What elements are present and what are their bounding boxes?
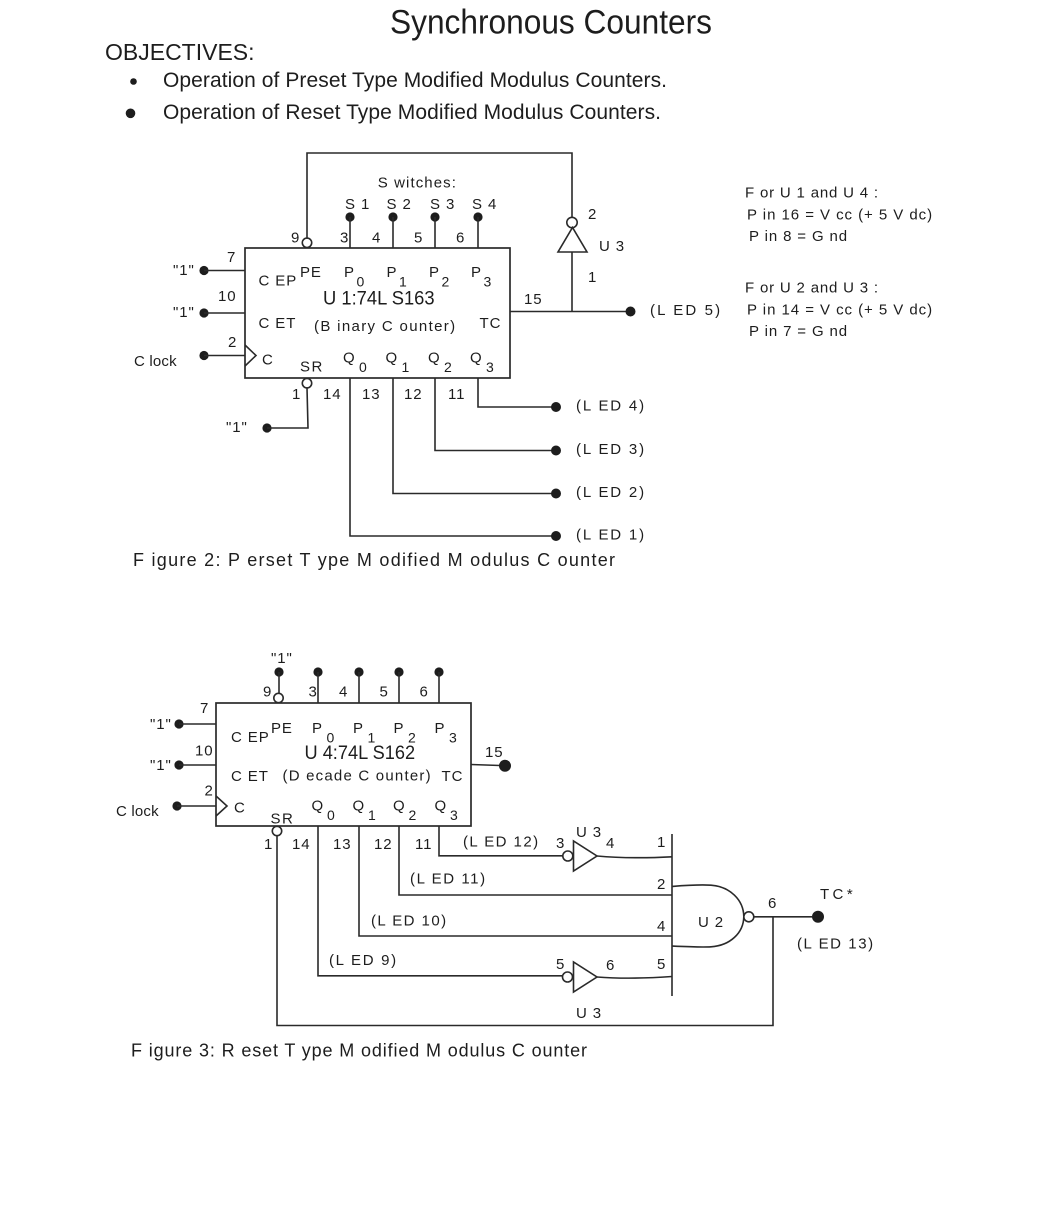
U4 pin name CEP bbox=[231, 729, 270, 746]
preset input node P1 (fig3) bbox=[354, 667, 363, 676]
U1 pin number 5 bbox=[414, 230, 423, 247]
svg-text:P in 8 = G nd: P in 8 = G nd bbox=[749, 228, 848, 245]
U1 pin name Q3 bbox=[470, 350, 495, 376]
wire: U4 Q3 pin 11 to inverter U3a input bbox=[439, 826, 563, 856]
U1 pin name Q0 bbox=[343, 350, 368, 376]
svg-text:OBJECTIVES:: OBJECTIVES: bbox=[105, 39, 255, 65]
svg-text:4: 4 bbox=[339, 684, 348, 701]
svg-text:15: 15 bbox=[524, 291, 543, 308]
node LED 12 bbox=[463, 834, 539, 851]
inverter U3a input bubble bbox=[563, 851, 573, 861]
svg-text:0: 0 bbox=[327, 807, 336, 823]
node LED 2 bbox=[551, 484, 645, 501]
svg-text:Q: Q bbox=[428, 350, 441, 367]
U3 designator on feedback path bbox=[576, 1005, 602, 1022]
svg-text:Q: Q bbox=[343, 350, 356, 367]
wire: clock to U4 pin 2 bbox=[177, 805, 216, 807]
svg-text:C: C bbox=[234, 800, 246, 817]
svg-text:TC: TC bbox=[480, 315, 502, 332]
U4 pin name CET bbox=[231, 768, 269, 785]
svg-text:10: 10 bbox=[195, 743, 214, 760]
svg-text:Synchronous Counters: Synchronous Counters bbox=[390, 4, 712, 42]
svg-text:(L ED 5): (L ED 5) bbox=[650, 302, 721, 319]
wire: S3 to U1 pin 5 bbox=[434, 217, 436, 248]
U4 pin name Q3 bbox=[435, 798, 459, 824]
svg-text:3: 3 bbox=[486, 359, 495, 375]
node "1" at CET input bbox=[173, 304, 209, 321]
svg-text:1: 1 bbox=[264, 836, 273, 853]
wire: U3 output to U1 PE pin 9 bbox=[307, 153, 572, 238]
IC U1 74LS163 body bbox=[245, 248, 510, 378]
svg-text:U 3: U 3 bbox=[576, 1005, 602, 1022]
svg-text:U 2: U 2 bbox=[698, 914, 724, 931]
U4 pin number 12 bbox=[374, 836, 393, 853]
svg-text:P: P bbox=[353, 720, 364, 737]
svg-text:9: 9 bbox=[263, 684, 272, 701]
svg-text:Q: Q bbox=[470, 350, 483, 367]
node Clock input (fig2) bbox=[134, 351, 209, 370]
preset input node P2 (fig3) bbox=[394, 667, 403, 676]
svg-text:(L ED 1): (L ED 1) bbox=[576, 527, 645, 544]
U1 pin number 6 bbox=[456, 230, 465, 247]
svg-text:2: 2 bbox=[205, 783, 214, 800]
svg-text:P: P bbox=[312, 720, 323, 737]
switch S3 bbox=[430, 196, 455, 222]
U4 pin 1 active-low bubble (SR) bbox=[272, 826, 281, 835]
U1 pin number 1 bbox=[292, 386, 301, 403]
U1 pin name CEP bbox=[259, 273, 298, 290]
inverter U3 (fig2) output bubble pin 2 bbox=[567, 217, 577, 227]
U1 pin number 7 bbox=[227, 249, 236, 266]
svg-text:S 4: S 4 bbox=[472, 196, 497, 213]
svg-text:S witches:: S witches: bbox=[378, 175, 457, 192]
node "1" at CEP input (fig3) bbox=[150, 716, 184, 733]
U2 pin number 6 bbox=[768, 895, 777, 912]
svg-text:4: 4 bbox=[657, 918, 666, 935]
svg-text:1: 1 bbox=[292, 386, 301, 403]
svg-text:"1": "1" bbox=[150, 716, 172, 733]
U4 pin name P2 bbox=[394, 720, 417, 746]
svg-text:5: 5 bbox=[380, 684, 389, 701]
caption figure 3 bbox=[131, 1041, 587, 1061]
svg-text:Operation of Reset Type Modifi: Operation of Reset Type Modified Modulus… bbox=[163, 101, 661, 124]
svg-text:F igure 2: P erset T ype M odi: F igure 2: P erset T ype M odified M odu… bbox=[133, 550, 615, 570]
svg-text:TC: TC bbox=[442, 768, 464, 785]
NAND U2 input bus line bbox=[671, 834, 673, 996]
preset input node P3 (fig3) bbox=[434, 667, 443, 676]
svg-text:(D ecade C ounter): (D ecade C ounter) bbox=[283, 768, 432, 785]
node TC output (fig3) bbox=[499, 760, 511, 772]
svg-text:U 1:74L S163: U 1:74L S163 bbox=[323, 288, 435, 310]
U1 pin name TC bbox=[480, 315, 502, 332]
node LED 11 bbox=[410, 871, 486, 888]
svg-text:13: 13 bbox=[362, 386, 381, 403]
svg-text:P in 7 = G nd: P in 7 = G nd bbox=[749, 323, 848, 340]
wire: U1 Q2 pin 12 to LED 3 bbox=[435, 378, 552, 451]
U4 label (Decade Counter) bbox=[283, 768, 432, 785]
node LED 5 bbox=[626, 302, 722, 319]
U2 pin number 5 bbox=[657, 956, 666, 973]
svg-text:(L ED 10): (L ED 10) bbox=[371, 913, 447, 930]
svg-text:2: 2 bbox=[228, 334, 237, 351]
svg-text:F or U 2 and U 3 :: F or U 2 and U 3 : bbox=[745, 280, 879, 297]
node "1" at PE input (fig3) bbox=[271, 650, 293, 677]
svg-text:"1": "1" bbox=[271, 650, 293, 667]
U4 pin name Q0 bbox=[312, 798, 336, 824]
svg-text:Q: Q bbox=[435, 798, 448, 815]
wire: U4 TC pin 15 stub bbox=[471, 765, 500, 766]
note: power pins for U2 and U3 bbox=[745, 280, 933, 341]
U1 pin number 14 bbox=[323, 386, 342, 403]
svg-text:(L ED 4): (L ED 4) bbox=[576, 398, 645, 415]
U4 pin number 7 bbox=[200, 700, 209, 717]
svg-text:3: 3 bbox=[484, 274, 493, 290]
svg-text:U 4:74L S162: U 4:74L S162 bbox=[305, 742, 416, 764]
heading OBJECTIVES bbox=[105, 39, 255, 65]
U4 pin number 4 bbox=[339, 684, 348, 701]
svg-text:3: 3 bbox=[449, 730, 458, 746]
svg-text:3: 3 bbox=[340, 230, 349, 247]
U1 pin name Q2 bbox=[428, 350, 453, 376]
U1 pin name P2 bbox=[429, 264, 450, 290]
svg-text:3: 3 bbox=[309, 684, 318, 701]
caption figure 2 bbox=[133, 550, 615, 570]
svg-text:(L ED 11): (L ED 11) bbox=[410, 871, 486, 888]
svg-text:P: P bbox=[429, 264, 440, 281]
U4 pin name PE bbox=[271, 720, 293, 737]
U1 pin name P0 bbox=[344, 264, 365, 290]
node "1" at CEP input bbox=[173, 262, 209, 279]
svg-text:P in 14 = V cc (+ 5 V dc): P in 14 = V cc (+ 5 V dc) bbox=[747, 302, 933, 319]
U3b pin number 6 bbox=[606, 957, 615, 974]
U4 pin number 3 bbox=[309, 684, 318, 701]
U4 pin number 9 bbox=[263, 684, 272, 701]
node LED 3 bbox=[551, 441, 645, 458]
svg-text:T C *: T C * bbox=[820, 886, 853, 903]
U4 pin name Q2 bbox=[393, 798, 417, 824]
svg-text:Q: Q bbox=[393, 798, 406, 815]
U1 pin number 12 bbox=[404, 386, 423, 403]
svg-text:(L ED 12): (L ED 12) bbox=[463, 834, 539, 851]
U3 pin number 1 bbox=[588, 269, 597, 286]
svg-text:4: 4 bbox=[606, 835, 615, 852]
wire: logic 1 to U1 CEP pin 7 bbox=[204, 270, 245, 272]
node Clock input (fig3) bbox=[116, 801, 182, 820]
svg-text:(L ED 13): (L ED 13) bbox=[797, 936, 874, 953]
svg-text:14: 14 bbox=[323, 386, 342, 403]
U4 pin name SR bbox=[271, 811, 295, 828]
svg-text:F or U 1 and U 4 :: F or U 1 and U 4 : bbox=[745, 185, 879, 202]
wire: clock to U1 pin 2 bbox=[204, 355, 245, 357]
wire: logic 1 to U4 CEP pin 7 bbox=[179, 723, 216, 725]
svg-text:S 3: S 3 bbox=[430, 196, 455, 213]
svg-text:SR: SR bbox=[271, 811, 295, 828]
wire: logic 1 to U4 PE pin 9 bbox=[278, 672, 280, 693]
svg-text:4: 4 bbox=[372, 230, 381, 247]
svg-text:(L ED 3): (L ED 3) bbox=[576, 441, 645, 458]
svg-text:C ET: C ET bbox=[259, 315, 297, 332]
U1 pin number 9 bbox=[291, 230, 300, 247]
U1 pin number 3 bbox=[340, 230, 349, 247]
inverter U3b input bubble bbox=[563, 972, 573, 982]
svg-text:(L ED 9): (L ED 9) bbox=[329, 952, 397, 969]
svg-text:C EP: C EP bbox=[259, 273, 298, 290]
wire: TC node to U3 input pin 1 bbox=[571, 252, 573, 312]
svg-text:Q: Q bbox=[353, 798, 366, 815]
NAND U2 output bubble pin 6 bbox=[744, 912, 754, 922]
svg-text:C: C bbox=[262, 352, 274, 369]
svg-text:14: 14 bbox=[292, 836, 311, 853]
U1 pin name P3 bbox=[471, 264, 492, 290]
svg-text:Q: Q bbox=[386, 350, 399, 367]
wire: U3a output to NAND pin 1 bbox=[597, 856, 672, 858]
U1 pin number 4 bbox=[372, 230, 381, 247]
U1 pin 1 active-low bubble (SR) bbox=[302, 379, 311, 388]
svg-text:(B inary C ounter): (B inary C ounter) bbox=[314, 318, 456, 335]
svg-text:7: 7 bbox=[200, 700, 209, 717]
U4 pin number 14 bbox=[292, 836, 311, 853]
IC U4 74LS162 body bbox=[216, 703, 471, 826]
U1 pin 9 active-low bubble bbox=[302, 238, 311, 247]
document title bbox=[390, 4, 712, 42]
U1 pin name Q1 bbox=[386, 350, 411, 376]
svg-text:P in 16 = V cc (+ 5 V dc): P in 16 = V cc (+ 5 V dc) bbox=[747, 207, 933, 224]
switch S4 bbox=[472, 196, 497, 222]
wire: U1 Q3 pin 11 to LED 4 bbox=[478, 378, 552, 407]
svg-text:Operation of Preset Type Modif: Operation of Preset Type Modified Modulu… bbox=[163, 69, 667, 92]
svg-text:13: 13 bbox=[333, 836, 352, 853]
wire: U4 Q0 pin 14 to inverter U3b input bbox=[318, 826, 562, 976]
svg-text:P: P bbox=[471, 264, 482, 281]
svg-text:6: 6 bbox=[606, 957, 615, 974]
U1 pin name SR bbox=[300, 359, 324, 376]
svg-text:3: 3 bbox=[556, 835, 565, 852]
U1 pin number 2 bbox=[228, 334, 237, 351]
svg-text:PE: PE bbox=[300, 264, 322, 281]
U4 pin number 2 bbox=[205, 783, 214, 800]
U4 pin name C bbox=[234, 800, 246, 817]
inverter U3b triangle bbox=[574, 962, 598, 992]
svg-text:11: 11 bbox=[415, 836, 432, 853]
U4 pin name P1 bbox=[353, 720, 376, 746]
svg-text:Q: Q bbox=[312, 798, 325, 815]
label Switches: bbox=[378, 175, 457, 192]
svg-text:"1": "1" bbox=[173, 304, 195, 321]
U2 pin number 4 bbox=[657, 918, 666, 935]
svg-text:C lock: C lock bbox=[116, 803, 160, 820]
preset input node P0 (fig3) bbox=[313, 667, 322, 676]
U4 clock edge-trigger symbol bbox=[216, 796, 227, 816]
svg-text:11: 11 bbox=[448, 386, 465, 403]
svg-text:12: 12 bbox=[404, 386, 423, 403]
switch S2 bbox=[387, 196, 412, 222]
U4 pin number 15 bbox=[485, 744, 504, 761]
wire: U4 Q2 pin 12 to NAND pin 2 bbox=[399, 826, 672, 895]
svg-text:P: P bbox=[387, 264, 398, 281]
svg-text:1: 1 bbox=[657, 834, 666, 851]
U4 pin 9 active-low bubble bbox=[274, 693, 283, 702]
node LED 4 bbox=[551, 398, 645, 415]
svg-text:C EP: C EP bbox=[231, 729, 270, 746]
inverter U3 (fig2) triangle bbox=[558, 228, 587, 253]
bullet item 2 bbox=[126, 101, 661, 124]
wire: logic 1 to U4 CET pin 10 bbox=[179, 764, 216, 766]
U3b pin number 5 bbox=[556, 956, 565, 973]
svg-text:P: P bbox=[344, 264, 355, 281]
svg-text:C ET: C ET bbox=[231, 768, 269, 785]
svg-text:2: 2 bbox=[588, 206, 597, 223]
wire: U2 output pin 6 to TC* node bbox=[754, 916, 812, 918]
U1 clock edge-trigger symbol bbox=[245, 345, 256, 366]
NAND gate U2 body bbox=[673, 885, 744, 947]
U1 pin number 15 bbox=[524, 291, 543, 308]
svg-text:1: 1 bbox=[588, 269, 597, 286]
svg-text:"1": "1" bbox=[150, 757, 172, 774]
wire: TC* feedback to U4 SR pin 1 bbox=[277, 836, 773, 1026]
U1 pin number 11 bbox=[448, 386, 465, 403]
U4 pin number 1 bbox=[264, 836, 273, 853]
svg-text:2: 2 bbox=[444, 359, 453, 375]
svg-text:U 3: U 3 bbox=[576, 824, 602, 841]
svg-text:F igure 3: R eset T ype M odif: F igure 3: R eset T ype M odified M odul… bbox=[131, 1041, 587, 1061]
svg-text:1: 1 bbox=[402, 359, 411, 375]
svg-text:6: 6 bbox=[456, 230, 465, 247]
node LED 10 bbox=[371, 913, 447, 930]
wire: logic 1 to U1 SR pin 1 bbox=[267, 388, 308, 428]
U4 pin number 13 bbox=[333, 836, 352, 853]
wire: to U4 pin 5 bbox=[398, 672, 400, 703]
svg-text:9: 9 bbox=[291, 230, 300, 247]
svg-text:2: 2 bbox=[657, 876, 666, 893]
svg-text:15: 15 bbox=[485, 744, 504, 761]
svg-text:SR: SR bbox=[300, 359, 324, 376]
U1 pin name C bbox=[262, 352, 274, 369]
wire: S1 to U1 pin 3 bbox=[349, 217, 351, 248]
switch S1 bbox=[345, 196, 370, 222]
node TC* (LED 13) bbox=[797, 886, 874, 953]
svg-text:5: 5 bbox=[414, 230, 423, 247]
wire: U3b output to NAND pin 5 bbox=[597, 977, 672, 979]
svg-text:10: 10 bbox=[218, 288, 237, 305]
node "1" at CET input (fig3) bbox=[150, 757, 184, 774]
U3 designator (fig2) bbox=[599, 238, 625, 255]
wire: U1 Q1 pin 13 to LED 2 bbox=[393, 378, 552, 494]
node LED 9 bbox=[329, 952, 397, 969]
wire: U1 TC pin 15 to LED 5 bbox=[510, 311, 626, 313]
svg-text:U 3: U 3 bbox=[599, 238, 625, 255]
wire: to U4 pin 4 bbox=[358, 672, 360, 703]
U4 device label U4:74LS162 bbox=[305, 742, 416, 764]
U3a designator bbox=[576, 824, 602, 841]
U1 pin name PE bbox=[300, 264, 322, 281]
svg-text:"1": "1" bbox=[226, 419, 248, 436]
U1 label (Binary Counter) bbox=[314, 318, 456, 335]
wire: U4 Q1 pin 13 to NAND pin 4 bbox=[359, 826, 672, 936]
svg-text:"1": "1" bbox=[173, 262, 195, 279]
svg-text:12: 12 bbox=[374, 836, 393, 853]
svg-text:(L ED 2): (L ED 2) bbox=[576, 484, 645, 501]
svg-text:P: P bbox=[394, 720, 405, 737]
svg-text:6: 6 bbox=[768, 895, 777, 912]
U1 pin number 10 bbox=[218, 288, 237, 305]
U2 designator bbox=[698, 914, 724, 931]
U4 pin number 5 bbox=[380, 684, 389, 701]
U1 pin name CET bbox=[259, 315, 297, 332]
U1 pin number 13 bbox=[362, 386, 381, 403]
U2 pin number 2 bbox=[657, 876, 666, 893]
node LED 1 bbox=[551, 527, 645, 544]
svg-text:7: 7 bbox=[227, 249, 236, 266]
U1 pin name P1 bbox=[387, 264, 408, 290]
wire: to U4 pin 3 bbox=[317, 672, 319, 703]
svg-text:0: 0 bbox=[359, 359, 368, 375]
svg-text:5: 5 bbox=[657, 956, 666, 973]
svg-text:3: 3 bbox=[450, 807, 459, 823]
svg-text:S 2: S 2 bbox=[387, 196, 412, 213]
wire: U1 Q0 pin 14 to LED 1 bbox=[350, 378, 552, 536]
U4 pin name P0 bbox=[312, 720, 335, 746]
bullet item 1 bbox=[130, 69, 667, 92]
wire: S2 to U1 pin 4 bbox=[392, 217, 394, 248]
svg-text:P: P bbox=[435, 720, 446, 737]
U2 pin number 1 bbox=[657, 834, 666, 851]
svg-text:2: 2 bbox=[409, 807, 418, 823]
U4 pin number 10 bbox=[195, 743, 214, 760]
U4 pin name TC bbox=[442, 768, 464, 785]
U4 pin number 11 bbox=[415, 836, 432, 853]
svg-text:1: 1 bbox=[368, 807, 377, 823]
U4 pin number 6 bbox=[420, 684, 429, 701]
svg-text:2: 2 bbox=[442, 274, 451, 290]
node "1" at SR input bbox=[226, 419, 272, 436]
U3a pin number 4 bbox=[606, 835, 615, 852]
wire: to U4 pin 6 bbox=[438, 672, 440, 703]
U4 pin name P3 bbox=[435, 720, 458, 746]
wire: S4 to U1 pin 6 bbox=[477, 217, 479, 248]
U3a pin number 3 bbox=[556, 835, 565, 852]
U4 pin name Q1 bbox=[353, 798, 377, 824]
U1 device label U1:74LS163 bbox=[323, 288, 435, 310]
wire: logic 1 to U1 CET pin 10 bbox=[204, 312, 245, 314]
svg-text:S 1: S 1 bbox=[345, 196, 370, 213]
U3 pin number 2 bbox=[588, 206, 597, 223]
note: power pins for U1 and U4 bbox=[745, 185, 933, 246]
inverter U3a triangle bbox=[574, 841, 598, 871]
svg-text:C lock: C lock bbox=[134, 353, 178, 370]
svg-text:5: 5 bbox=[556, 956, 565, 973]
svg-text:PE: PE bbox=[271, 720, 293, 737]
svg-text:6: 6 bbox=[420, 684, 429, 701]
